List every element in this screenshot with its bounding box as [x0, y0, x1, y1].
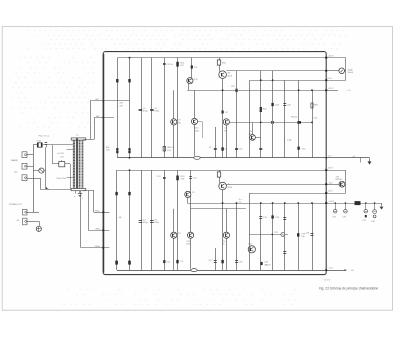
transistor T12b	[248, 246, 255, 253]
series capacitor on collector line	[271, 121, 273, 124]
test stub	[360, 158, 362, 163]
svg-text:R72: R72	[275, 232, 278, 234]
transistor T11	[252, 122, 254, 134]
capacitor C21	[283, 251, 286, 253]
wire vertical x129.5 lower	[129, 170, 131, 270]
svg-text:BD130: BD130	[336, 179, 343, 181]
wire bottom rail y270.1	[117, 270, 326, 272]
ground at end of filtered line	[381, 203, 383, 206]
node +50V exit	[326, 57, 346, 59]
wire vertical x236.5	[236, 71, 238, 158]
capacitor C20	[283, 217, 286, 219]
wire vertical x194.5 through T7	[194, 90, 196, 158]
wire vertical x298.6	[298, 80, 300, 158]
transformer primary left tap stub upper	[67, 149, 73, 151]
transformer secondary winding A	[79, 140, 81, 188]
wire emitter line y184.2	[226, 184, 326, 186]
wire vertical x116.6 lower	[116, 170, 118, 270]
capacitor C10	[235, 148, 238, 150]
capacitor C35 hanging	[345, 202, 347, 204]
wire external transistor loop vertical	[345, 170, 347, 193]
capacitor C5	[150, 220, 154, 222]
wire T2 emitter down	[187, 198, 189, 204]
main circuit enclosure box	[103, 52, 326, 275]
capacitor C39 hanging electrolytic	[374, 202, 376, 204]
diode D7 pair	[128, 148, 130, 150]
svg-text:+0-2,5V: +0-2,5V	[57, 153, 65, 155]
svg-text:470μ: 470μ	[154, 222, 159, 224]
wire mains bottom y189.4	[40, 189, 76, 191]
capacitor C8	[221, 147, 223, 150]
wire vertical x249.8	[249, 80, 251, 158]
svg-text:Plan 17 ou: Plan 17 ou	[39, 136, 50, 138]
bracket 1mA	[284, 137, 286, 144]
capacitor C19	[259, 216, 262, 218]
wire collector line y122.4	[230, 122, 313, 124]
wire vertical x45.5 to switch	[45, 147, 47, 187]
diode D9	[191, 65, 193, 68]
wire vertical x249.2 lower	[249, 193, 251, 270]
drop wire x93.9	[93, 190, 95, 212]
svg-text:470μ: 470μ	[143, 222, 148, 224]
wire vertical x177.5 lower	[177, 170, 179, 270]
transistor T2	[185, 191, 191, 197]
svg-text:470μ: 470μ	[143, 111, 148, 113]
diode D11	[115, 192, 117, 195]
trimmer R72 on line	[281, 233, 285, 237]
resistor R53	[176, 176, 179, 181]
diode D17	[128, 261, 131, 265]
transformer primary winding	[73, 140, 75, 188]
svg-text:+50 V: +50 V	[328, 55, 334, 57]
transformer top-right tap link	[83, 139, 94, 141]
diode D2	[222, 111, 224, 114]
fuse F1	[37, 143, 42, 147]
fuse Si2	[219, 170, 221, 172]
svg-text:50Vac: 50Vac	[95, 246, 100, 248]
svg-text:+15 V: +15 V	[328, 88, 334, 90]
scan bleed-through texture	[12, 30, 347, 305]
riser to input y100.9	[90, 101, 92, 139]
capacitor C7	[221, 260, 223, 263]
wire vertical x164.3 lower	[164, 170, 166, 270]
svg-text:BC: BC	[178, 122, 181, 124]
svg-text:C33: C33	[332, 216, 335, 218]
diode D1	[116, 79, 118, 82]
capacitor C14	[189, 176, 192, 178]
wire bias rail y80.2	[250, 80, 326, 82]
node 0V rail exit with ground	[326, 157, 369, 159]
transformer bottom tap link	[83, 190, 94, 192]
svg-text:100n: 100n	[195, 130, 199, 132]
capacitor C26	[283, 103, 286, 105]
svg-text:C37: C37	[362, 220, 365, 222]
diode D19	[163, 260, 165, 263]
wire vertical x129.5	[129, 58, 131, 158]
riser to input y117.5	[94, 118, 96, 140]
capacitor C37 hanging	[365, 202, 367, 204]
svg-text:≈-15 V: ≈-15 V	[328, 201, 335, 203]
fuse F3 inline 0V rail	[194, 156, 201, 160]
diode D22	[271, 103, 273, 106]
wire secondary lower tap1 y212.2	[94, 212, 109, 214]
capacitor C4	[150, 109, 154, 111]
svg-text:≈ 50 mV: ≈ 50 mV	[323, 280, 331, 282]
wire out2	[27, 221, 39, 223]
diode D3 pair	[116, 148, 118, 150]
wire secondary lower tap2 y230.1	[88, 230, 109, 232]
capacitor C28	[311, 233, 314, 235]
wire T1 emitter to base rail	[188, 84, 190, 91]
capacitor C24	[297, 233, 299, 236]
wire vertical x151.8	[151, 58, 153, 158]
svg-text:C39: C39	[371, 221, 374, 223]
capacitor C33 hanging	[334, 202, 336, 204]
transistor T1	[187, 78, 193, 84]
wire terminal E to x40.3	[27, 178, 40, 180]
wire 0V rail y157.8	[117, 157, 326, 159]
terminal block mains N	[22, 163, 27, 169]
transistor T9	[226, 125, 228, 158]
lamp La1	[33, 170, 39, 172]
wire terminal N to bus	[27, 166, 33, 168]
node 0V sense exit	[326, 80, 346, 82]
wire out1	[27, 212, 39, 214]
diode D26	[260, 262, 262, 265]
svg-text:C45: C45	[106, 149, 109, 151]
wire vertical x164.3	[164, 58, 166, 158]
transistor T7	[191, 118, 197, 124]
earth symbol circle	[39, 221, 41, 226]
wire vertical x284.8	[284, 80, 286, 158]
svg-text:a: a	[74, 196, 75, 198]
ground symbol right of 0V	[369, 158, 371, 162]
capacitor C32	[297, 147, 299, 150]
wire base rail y90.2	[187, 90, 326, 92]
resistor R60	[260, 107, 262, 112]
wire mains top y144.8	[33, 144, 37, 146]
wire vertical x117.3	[117, 58, 119, 158]
wire vertical x260.8 lower	[260, 203, 262, 270]
wire secondary input y117.5	[94, 117, 114, 119]
transformer top yoke	[71, 138, 86, 140]
drop wire x88.2	[88, 190, 90, 230]
wire vertical x141	[141, 58, 143, 158]
resistor R68	[163, 146, 165, 151]
svg-text:470μ: 470μ	[154, 111, 159, 113]
zener D4 on base rail	[235, 89, 237, 92]
wire T5 emitter down	[222, 79, 224, 158]
resistor R50 series	[219, 58, 221, 60]
svg-text:5Vac1,5Va: 5Vac1,5Va	[56, 178, 66, 180]
svg-text:1N: 1N	[194, 67, 197, 69]
terminal block mains E	[22, 175, 27, 181]
svg-text:C11 2n: C11 2n	[166, 64, 173, 66]
wire -15V line y193.0	[250, 193, 326, 195]
transistor T6 2N3055	[219, 182, 227, 190]
diode D5	[128, 79, 130, 82]
switch S2 contact	[45, 187, 47, 189]
capacitor C12	[163, 177, 166, 179]
transformer ground	[78, 193, 82, 195]
wire vertical x141 lower	[141, 170, 143, 270]
svg-text:50mV: 50mV	[348, 72, 354, 74]
wire -50V rail y170.1	[117, 170, 327, 172]
svg-text:36Vac: 36Vac	[95, 228, 100, 230]
diode D15b	[115, 261, 118, 265]
wire vertical x177.5	[177, 58, 179, 158]
transistor T14 external BD130	[326, 184, 339, 186]
wire vertical x272.6 lower	[272, 203, 274, 270]
svg-text:50μA: 50μA	[348, 68, 354, 71]
capacitor C3	[139, 220, 143, 222]
wire vertical x190.6 lower	[190, 170, 192, 270]
svg-text:1mA: 1mA	[287, 139, 292, 142]
resistor R70 inline	[355, 201, 361, 205]
node -15V filtered line	[326, 203, 381, 205]
wire pot to transformer	[65, 163, 70, 165]
capacitor C18	[235, 260, 238, 262]
wire vertical x151.8 lower	[151, 170, 153, 270]
svg-text:0,5A: 0,5A	[37, 139, 42, 142]
svg-text:-50,2: -50,2	[328, 183, 332, 185]
svg-text:Fig. 23 Schéma de principe d': Fig. 23 Schéma de principe d'alimentatio…	[319, 286, 378, 290]
svg-text:POWER OUT: POWER OUT	[9, 204, 23, 206]
terminal block out 1	[23, 209, 27, 215]
transistor T3	[173, 90, 175, 158]
wire rail y208.8	[191, 208, 246, 210]
svg-text:5 W: 5 W	[167, 150, 171, 152]
wire vertical x236.5 lower	[236, 203, 238, 270]
wire 0V-2 rail y203.0	[187, 203, 326, 205]
capacitor C12a	[259, 148, 262, 150]
transformer bottom yoke	[71, 189, 86, 191]
svg-text:C35: C35	[342, 216, 345, 218]
transistor T5 2N3055	[219, 71, 227, 79]
diode D24	[271, 215, 273, 218]
svg-text:100n: 100n	[186, 244, 190, 246]
wire vertical x260.8	[260, 71, 262, 158]
wire vertical x312 lower	[312, 203, 314, 270]
wire vertical x272.6	[272, 71, 274, 158]
capacitor C17	[215, 248, 217, 270]
node -15V exit	[326, 193, 346, 195]
resistor R52	[176, 62, 179, 67]
capacitor C11	[163, 63, 166, 65]
wire vertical x312	[312, 90, 314, 158]
meter M1 50uA	[326, 70, 339, 72]
transistor T4	[188, 232, 194, 238]
wire vertical x33 mains feed	[33, 145, 35, 212]
svg-text:-50 V: -50 V	[328, 168, 334, 170]
svg-text:10μ: 10μ	[301, 236, 304, 238]
svg-text:AA119: AA119	[265, 264, 272, 267]
potentiometer P1	[59, 162, 65, 167]
wire trim line y234.4	[250, 234, 289, 236]
terminal block mains L	[22, 152, 27, 158]
wire vertical x284.8 lower	[284, 203, 286, 270]
terminal block out 2	[23, 218, 27, 225]
resistor R66	[311, 103, 313, 108]
capacitor C6	[215, 127, 217, 158]
left bus edge of enclosure	[103, 54, 105, 273]
svg-text:0,1: 0,1	[239, 201, 242, 203]
node -50V exit	[326, 170, 346, 172]
transformer center tap stubs	[75, 191, 77, 194]
drop wire x80.9	[80, 191, 82, 248]
wire pot feed	[52, 145, 54, 164]
wire secondary input upper y100.9	[90, 100, 130, 102]
transformer primary left tap stub lower	[67, 177, 73, 179]
capacitor C2	[139, 109, 143, 111]
node +15V exit	[326, 90, 338, 92]
node -50V rail exit	[326, 270, 344, 272]
svg-text:MAINS: MAINS	[11, 159, 18, 162]
capacitor C1 mains	[46, 145, 48, 147]
wire stub x202	[202, 123, 204, 138]
diode D13	[128, 192, 130, 195]
transistor T8	[173, 209, 175, 270]
wire T6 emitter down	[222, 190, 224, 270]
wire vertical x191.8 base feed	[191, 58, 193, 78]
wire secondary lower tap3 y247.8	[81, 247, 109, 249]
wire meter loop vertical	[345, 58, 347, 80]
svg-text:250: 250	[60, 157, 63, 159]
fuse F4 inline bottom rail	[191, 268, 198, 272]
wire meter rail y70.8	[226, 70, 326, 72]
capacitor C9	[176, 260, 178, 263]
diode D8 on collector line	[297, 121, 301, 124]
svg-text:a: a	[82, 198, 83, 200]
svg-text:0 V: 0 V	[328, 156, 332, 158]
transistor T10	[226, 209, 228, 270]
transformer core laminations	[76, 138, 78, 190]
svg-text:-15 V: -15 V	[328, 191, 334, 193]
svg-text:R64 1k: R64 1k	[291, 116, 297, 118]
wire +50V rail y57.7	[117, 57, 326, 59]
svg-text:0 V≈: 0 V≈	[328, 77, 333, 80]
wire terminal L to bus	[27, 154, 33, 156]
svg-text:36Vac: 36Vac	[95, 211, 100, 213]
wire vertical x298.2 lower	[298, 203, 300, 270]
transformer secondary winding B	[82, 140, 84, 188]
